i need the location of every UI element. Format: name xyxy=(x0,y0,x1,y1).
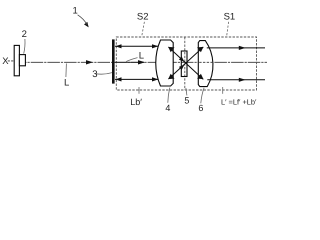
svg-text:5: 5 xyxy=(184,95,189,105)
svg-text:4: 4 xyxy=(165,103,170,113)
svg-text:1: 1 xyxy=(73,6,78,17)
svg-text:S2: S2 xyxy=(137,12,149,23)
svg-text:L: L xyxy=(139,51,144,62)
svg-text:3: 3 xyxy=(92,69,97,80)
svg-text:X: X xyxy=(2,56,9,67)
svg-text:Lb′: Lb′ xyxy=(130,97,142,107)
svg-text:L: L xyxy=(64,77,69,88)
svg-text:2: 2 xyxy=(22,29,27,40)
svg-text:S1: S1 xyxy=(224,12,236,23)
svg-text:L′ =Lf′ +Lb′: L′ =Lf′ +Lb′ xyxy=(221,97,257,106)
svg-text:6: 6 xyxy=(198,103,203,113)
